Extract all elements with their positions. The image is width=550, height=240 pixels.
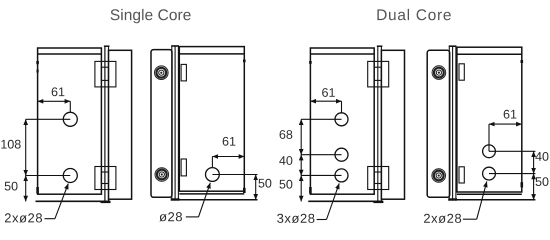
E3 dim 61 line xyxy=(310,100,341,102)
E3 label 3x diameter 28 xyxy=(277,214,314,223)
E3 bottom flange line xyxy=(308,200,383,202)
E3 dim 68 line xyxy=(300,119,302,154)
E3 bottom hinge plate xyxy=(368,167,389,190)
E3 hole middle 28mm xyxy=(335,148,348,161)
E3 bottom hinge inner block xyxy=(374,172,381,184)
E4 lock top xyxy=(432,66,446,80)
E4 door top inner line xyxy=(457,53,522,55)
E3 door edge latch tick bottom xyxy=(309,187,312,194)
E3 hole bottom 28mm xyxy=(335,169,348,182)
E2 door panel xyxy=(179,47,244,192)
E3 body side box xyxy=(381,50,404,199)
E4 lower hole center line xyxy=(489,173,535,175)
E3 dim 40 line xyxy=(300,155,302,176)
E2 bottom flange line xyxy=(179,199,257,201)
E2 hinge column bottom foot xyxy=(171,198,180,200)
E4 door panel xyxy=(457,47,522,192)
E1 dim 61 line xyxy=(38,100,71,102)
E4 leader 2x28 horizontal xyxy=(463,218,477,220)
E3 dim 61 extension line xyxy=(341,101,343,112)
E1 hinge pin line right xyxy=(108,46,110,203)
E4 hinge column bottom foot xyxy=(448,198,457,200)
E4 door bottom line xyxy=(457,193,522,195)
E2 hole 28mm xyxy=(206,168,220,182)
E4 upper hole center line xyxy=(489,150,535,152)
E4 door edge latch tick top xyxy=(520,60,523,63)
E1 top hinge plate xyxy=(95,61,116,87)
E3 label 61 xyxy=(322,88,335,97)
E4 label 40 xyxy=(535,152,548,161)
E1 bottom flange line xyxy=(36,200,111,202)
E2 lock bottom xyxy=(155,168,169,182)
E3 top hinge inner block xyxy=(374,67,381,80)
E1 body side box xyxy=(109,50,132,199)
E4 bottom flange line xyxy=(457,199,536,201)
E4 hinge column line 1 xyxy=(448,46,450,201)
E1 hinge pin bottom cap xyxy=(101,201,111,203)
E2 dim 61 extension line xyxy=(211,157,213,168)
E2 hole center line xyxy=(212,174,257,176)
E3 door top inner line xyxy=(310,53,374,55)
E1 hinge pin top cap xyxy=(104,45,110,47)
E4 label 61 xyxy=(504,110,517,119)
E3 hole top 28mm xyxy=(335,113,348,126)
enclosure E3 door panel xyxy=(310,48,374,194)
enclosure E2 body box xyxy=(151,50,172,198)
E4 label 50 xyxy=(536,177,549,186)
E2 latch keeper bottom xyxy=(181,159,186,176)
E1 label 61 xyxy=(52,87,65,96)
E3 label 68 xyxy=(280,130,293,139)
E1 dim 50 line xyxy=(25,176,27,202)
E4 label 2x diameter 28 xyxy=(424,214,461,223)
E3 top hinge plate xyxy=(368,61,389,87)
E3 hinge pin bottom cap xyxy=(373,201,383,203)
E2 label diameter 28 xyxy=(159,212,182,221)
E2 lock top xyxy=(155,66,169,80)
E4 latch keeper top xyxy=(459,64,464,80)
E3 hinge pin line right xyxy=(380,46,382,203)
E4 hole upper 28mm xyxy=(483,145,496,158)
E2 leader dia28 horizontal xyxy=(186,216,199,218)
E3 dim 50 line xyxy=(300,175,302,201)
E2 latch keeper top xyxy=(181,64,186,81)
E1 leader 2x28 diagonal xyxy=(55,184,68,219)
E4 dim 50 line xyxy=(533,174,535,200)
enclosure E1 door panel xyxy=(38,48,102,194)
E2 hinge column line 2 xyxy=(174,45,176,200)
E1 door top inner line xyxy=(38,53,102,55)
E3 hinge pin line left xyxy=(377,46,379,203)
E4 lock bottom xyxy=(432,169,446,183)
E4 hinge column top cap xyxy=(449,45,457,47)
E1 hinge pin line left xyxy=(104,46,106,203)
E1 leader 2x28 horizontal xyxy=(45,218,55,220)
E1 lower hole center line xyxy=(26,175,71,177)
E2 leader dia28 diagonal xyxy=(199,183,211,217)
E3 leader 3x28 horizontal xyxy=(317,219,327,221)
E4 hinge column line 2 xyxy=(452,46,454,201)
E2 dim 50 line xyxy=(255,175,257,200)
E3 middle hole center line xyxy=(301,154,341,156)
E1 bottom hinge plate xyxy=(95,167,116,190)
E1 dim 108 line xyxy=(25,119,27,175)
E2 label 61 xyxy=(223,137,236,146)
E1 hole upper 28mm xyxy=(63,112,77,126)
E1 upper hole center line xyxy=(26,118,71,120)
E4 dim 61 line xyxy=(489,123,522,125)
E1 hole lower 28mm xyxy=(63,169,77,183)
E4 latch keeper bottom xyxy=(459,167,464,183)
E2 door bottom line xyxy=(179,193,244,195)
E2 label 50 xyxy=(258,179,271,188)
E4 hinge column line 3 xyxy=(455,46,457,201)
E2 door top inner line xyxy=(179,53,244,55)
E2 hinge column line 1 xyxy=(171,45,173,200)
enclosure E4 body box xyxy=(427,50,450,197)
E3 label 40 xyxy=(279,156,292,165)
E3 bottom hole center line xyxy=(301,174,341,176)
E3 label 50 xyxy=(279,180,292,189)
E1 door edge latch tick bottom xyxy=(36,187,39,194)
E2 door edge latch tick top xyxy=(243,60,246,63)
E3 hinge pin top cap xyxy=(377,45,383,47)
E4 hole lower 28mm xyxy=(483,167,496,180)
E1 label 108 xyxy=(1,140,20,149)
E2 door edge latch tick bottom xyxy=(243,188,246,193)
E3 leader 3x28 diagonal xyxy=(327,183,340,219)
E1 dim 61 extension line xyxy=(69,101,71,112)
E4 door edge latch tick bottom xyxy=(520,182,523,187)
E4 dim 40 line xyxy=(533,151,535,173)
E1 bottom hinge inner block xyxy=(101,172,108,184)
E4 dim 61 extension line xyxy=(488,124,490,151)
E1 top hinge inner block xyxy=(101,67,108,80)
E1 door edge latch tick mid xyxy=(36,70,38,73)
E2 dim 61 line xyxy=(212,156,244,158)
title Dual Core xyxy=(377,9,450,20)
E1 label 50 xyxy=(5,182,18,191)
title Single Core xyxy=(111,9,191,23)
E2 hinge column line 3 xyxy=(177,45,179,200)
E1 door edge latch tick top xyxy=(36,61,39,64)
E3 top hole center line xyxy=(301,118,341,120)
E4 leader 2x28 diagonal xyxy=(477,182,487,220)
E3 door edge latch tick top xyxy=(309,61,312,64)
E1 label 2x diameter 28 xyxy=(5,213,42,222)
E2 hinge column top cap xyxy=(171,45,179,47)
